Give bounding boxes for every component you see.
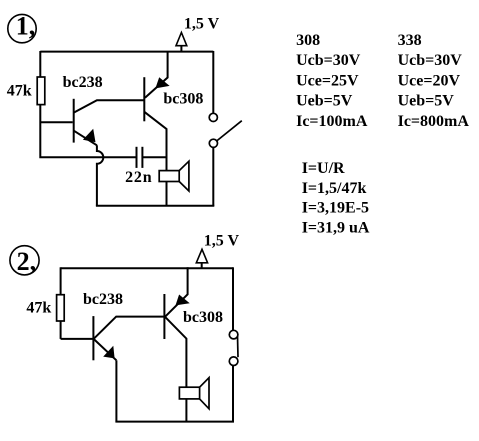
speaker LS1 horn circuit 1 (179, 161, 189, 191)
svg-text:338: 338 (398, 32, 422, 49)
wire right rail bottom circuit 2 (232, 366, 234, 422)
switch S1 upper contact circuit 1 (209, 113, 217, 121)
svg-text:Ic=100mA: Ic=100mA (296, 113, 368, 130)
power supply terminal symbol 1,5V circuit 2 (196, 249, 207, 262)
svg-text:I=31,9 uA: I=31,9 uA (302, 219, 370, 236)
capacitor 22n right plate (141, 147, 143, 168)
transistor bc238 base bar circuit 1 (73, 99, 75, 143)
wire from rail down to resistor R1 (39, 51, 41, 77)
transistor bc238 emitter circuit 1 (74, 131, 97, 146)
svg-text:Ueb=5V: Ueb=5V (296, 93, 353, 110)
transistor bc308 emitter arrow circuit 1 (155, 77, 169, 88)
transistor bc308 emitter from rail circuit 1 (145, 51, 168, 98)
switch S2 upper contact circuit 2 (229, 330, 238, 339)
svg-text:Ic=800mA: Ic=800mA (398, 113, 470, 130)
svg-text:1,5 V: 1,5 V (184, 16, 220, 33)
wire right rail bottom circuit 1 (212, 147, 214, 205)
wire bottom rail circuit 1 (96, 205, 214, 207)
svg-text:Ucb=30V: Ucb=30V (296, 52, 361, 69)
svg-text:308: 308 (296, 32, 320, 49)
svg-text:2,: 2, (17, 247, 36, 276)
svg-text:bc238: bc238 (83, 291, 123, 308)
svg-text:Uce=20V: Uce=20V (398, 72, 461, 89)
svg-text:1,5 V: 1,5 V (204, 232, 240, 249)
svg-text:1,: 1, (16, 12, 36, 41)
svg-text:47k: 47k (26, 300, 51, 317)
wire resistor to base lead circuit 2 (60, 321, 62, 339)
transistor bc238 emitter circuit 2 (94, 339, 117, 360)
transistor bc308 collector circuit 2 (165, 317, 186, 422)
wire top supply rail circuit 2 (61, 267, 233, 269)
wire rail down to resistor R2 (60, 267, 62, 294)
transistor bc308 collector circuit 1 (144, 112, 166, 206)
wire base lead bc238 circuit 1 (40, 121, 72, 123)
svg-text:bc238: bc238 (63, 74, 103, 91)
switch S2 lever (closed) circuit 2 (237, 336, 240, 357)
transistor bc238 base bar circuit 2 (92, 316, 94, 360)
power supply terminal symbol 1,5V circuit 1 (176, 33, 187, 46)
transistor bc238 collector circuit 1 (74, 100, 144, 112)
wire bc238 emitter to bottom rail circuit 2 (115, 360, 117, 421)
svg-text:Ueb=5V: Ueb=5V (398, 93, 455, 110)
transistor bc308 emitter from rail circuit 2 (165, 267, 188, 317)
switch S1 lever (open) circuit 1 (217, 121, 242, 141)
wire bottom rail circuit 2 (115, 421, 234, 423)
transistor bc308 base bar circuit 2 (163, 294, 165, 339)
switch S2 lower contact circuit 2 (229, 357, 238, 366)
wire capacitor to collector node circuit 1 (142, 156, 166, 158)
wire power stem circuit 1 (180, 46, 182, 53)
wire power stem circuit 2 (201, 263, 203, 269)
svg-text:bc308: bc308 (163, 90, 203, 107)
svg-text:47k: 47k (7, 83, 32, 100)
wire top supply rail circuit 1 (40, 51, 213, 53)
speaker LS1 box circuit 1 (159, 171, 179, 182)
speaker LS2 box circuit 2 (179, 387, 199, 399)
svg-text:I=U/R: I=U/R (302, 160, 345, 177)
node marker circle 2 (10, 246, 39, 275)
wire emitter down with crossover hop circuit 1 (97, 145, 103, 206)
capacitor 22n left plate (136, 147, 138, 168)
transistor bc308 base bar circuit 1 (143, 77, 145, 121)
transistor bc238 emitter arrow circuit 2 (103, 346, 114, 359)
node marker circle 1 (8, 14, 36, 42)
svg-text:I=1,5/47k: I=1,5/47k (302, 180, 367, 197)
svg-text:bc308: bc308 (183, 309, 223, 326)
svg-text:Uce=25V: Uce=25V (296, 72, 359, 89)
resistor 47k circuit 2 (57, 295, 65, 321)
wire base lead bc238 circuit 2 (61, 338, 94, 340)
transistor bc238 emitter arrow circuit 1 (83, 129, 96, 143)
wire resistor to base node and feedback line circuit 1 (40, 105, 136, 157)
svg-text:Ucb=30V: Ucb=30V (398, 52, 463, 69)
svg-text:I=3,19E-5: I=3,19E-5 (302, 200, 369, 217)
speaker LS2 horn circuit 2 (200, 378, 209, 409)
transistor bc308 emitter arrow circuit 2 (176, 295, 190, 306)
switch S1 lower contact circuit 1 (209, 139, 217, 147)
wire right rail top circuit 2 (232, 267, 234, 330)
transistor bc238 collector circuit 2 (94, 317, 165, 339)
resistor 47k circuit 1 (37, 77, 45, 105)
svg-text:22n: 22n (125, 169, 152, 186)
wire right rail top circuit 1 (212, 51, 214, 113)
